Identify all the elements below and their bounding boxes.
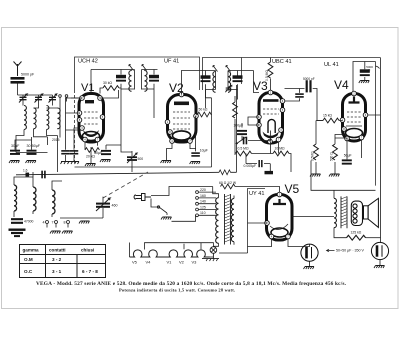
ground osc fat bbox=[9, 229, 26, 238]
input coil wiring bbox=[16, 98, 67, 173]
padder capacitor 500 bbox=[127, 153, 143, 163]
pin numbers V4 bbox=[342, 92, 367, 141]
wire bus to pot line bbox=[231, 85, 237, 172]
wire to UY bbox=[235, 187, 280, 193]
ground switch2 bbox=[62, 231, 73, 234]
svg-text:30µF: 30µF bbox=[11, 144, 20, 148]
svg-text:3 - 2: 3 - 2 bbox=[52, 257, 62, 262]
capacitor 100uF left of V3 bbox=[234, 124, 248, 136]
svg-text:30·50µF: 30·50µF bbox=[27, 144, 41, 148]
svg-text:110: 110 bbox=[200, 211, 206, 215]
IF1 top wires bbox=[71, 70, 158, 109]
svg-text:V4: V4 bbox=[146, 260, 152, 265]
junction blob bbox=[265, 171, 274, 174]
speaker bbox=[364, 198, 379, 227]
svg-text:125 kΩ: 125 kΩ bbox=[351, 231, 362, 235]
svg-text:contatti: contatti bbox=[49, 248, 66, 253]
svg-text:500: 500 bbox=[138, 157, 144, 161]
svg-text:UY 41: UY 41 bbox=[249, 191, 264, 197]
svg-text:0.005µF: 0.005µF bbox=[244, 164, 257, 168]
electrolytic capacitor 50uF b bbox=[371, 242, 388, 265]
svg-text:15 kΩ: 15 kΩ bbox=[323, 114, 332, 118]
ground ecap b bbox=[374, 266, 385, 269]
svg-text:140: 140 bbox=[200, 200, 206, 204]
svg-text:220: 220 bbox=[200, 188, 206, 192]
ground g3 wide bbox=[61, 162, 80, 165]
oscillator coil Lb bbox=[33, 187, 36, 211]
svg-text:pF: pF bbox=[367, 68, 371, 72]
power transformer core bbox=[225, 194, 231, 245]
svg-text:4: 4 bbox=[43, 221, 45, 225]
capacitor 0.005uF below V3 bbox=[244, 160, 263, 168]
filament labels bbox=[132, 260, 197, 265]
tube V4 pins bbox=[340, 91, 368, 141]
wire gang bbox=[60, 197, 103, 218]
wire res to V1 bbox=[100, 88, 121, 94]
ground gang bbox=[79, 221, 90, 224]
resistor 50k right of V2 bbox=[198, 108, 212, 117]
capacitor grid V1 b bbox=[70, 150, 79, 154]
resistor 500ohm below V4 bbox=[330, 144, 338, 161]
coil L4 band2 secondary bbox=[58, 108, 61, 129]
svg-text:3 - 1: 3 - 1 bbox=[52, 269, 62, 274]
ground switch bbox=[50, 231, 61, 234]
pin numbers V5 bbox=[266, 193, 289, 239]
label UBC 41 bbox=[272, 59, 292, 65]
wire V2 to 50k bbox=[196, 90, 212, 115]
svg-text:0.5 MΩ: 0.5 MΩ bbox=[265, 70, 269, 81]
svg-text:VEGA - Modd. 527 serie ANIE e: VEGA - Modd. 527 serie ANIE e 528. Onde … bbox=[36, 281, 347, 287]
shield box UBC41/UL41 bbox=[203, 58, 381, 186]
svg-text:0.5 MΩ: 0.5 MΩ bbox=[238, 147, 249, 151]
wires below V3 bbox=[246, 131, 291, 173]
oscillator coil La bbox=[14, 185, 17, 211]
output transformer wiring bbox=[292, 58, 381, 243]
ground g2 bbox=[26, 161, 37, 164]
UY41 box bbox=[248, 189, 266, 253]
oscillator coil Lc bbox=[52, 190, 55, 214]
svg-text:8: 8 bbox=[64, 221, 66, 225]
capacitor 47000 osc bbox=[11, 218, 34, 224]
ground lamp bbox=[206, 259, 218, 262]
trimmer T1 bbox=[19, 94, 27, 103]
tone capacitor 5000pF top right bbox=[360, 65, 374, 76]
capacitor IF1a bbox=[116, 75, 126, 82]
label V5 bbox=[285, 182, 300, 196]
coupling cap label bbox=[303, 77, 315, 81]
wire antenna down bbox=[17, 84, 19, 96]
capacitor IF1b bbox=[149, 75, 159, 82]
svg-text:V5: V5 bbox=[285, 182, 300, 196]
svg-text:30 kΩ: 30 kΩ bbox=[103, 81, 112, 85]
tube V3 bbox=[259, 93, 283, 144]
ground mains bbox=[161, 217, 172, 220]
coil IF2b bbox=[228, 72, 231, 93]
svg-text:5000 pF: 5000 pF bbox=[303, 77, 315, 81]
caption line 2 bbox=[119, 287, 235, 292]
small comp on bus bbox=[23, 169, 29, 177]
svg-text:10µF: 10µF bbox=[200, 149, 209, 153]
svg-text:125: 125 bbox=[200, 205, 206, 209]
coil IF2a bbox=[213, 72, 216, 93]
svg-text:V5: V5 bbox=[132, 260, 138, 265]
gang dashed line bbox=[103, 172, 148, 198]
power transformer secondary bbox=[231, 199, 234, 242]
resistor on bus bbox=[219, 170, 231, 175]
coupling capacitor 5000pF V3-V4 bbox=[306, 80, 312, 92]
wires left of V1 bbox=[15, 98, 80, 162]
IF1 tuning arrows bbox=[129, 65, 147, 71]
wire res V3 top bbox=[270, 58, 272, 91]
wire V1 cathode down bbox=[85, 142, 98, 163]
svg-text:0.5MΩ: 0.5MΩ bbox=[311, 151, 315, 161]
label UL 41 bbox=[324, 62, 339, 68]
label V4 bbox=[334, 78, 349, 92]
svg-text:50+50 µF · 350 V: 50+50 µF · 350 V bbox=[336, 249, 365, 253]
node dot A bbox=[59, 95, 68, 98]
main HT bus bbox=[16, 172, 219, 175]
pin numbers V1 bbox=[79, 96, 104, 142]
capacitor 30uF bbox=[10, 144, 20, 155]
svg-text:UBC 41: UBC 41 bbox=[272, 59, 292, 65]
svg-text:5000 pF: 5000 pF bbox=[21, 73, 35, 77]
capacitor grid V1 a bbox=[61, 150, 70, 154]
caption line 1 bbox=[36, 281, 347, 287]
series capacitor on bus bbox=[41, 171, 45, 179]
tuning gang capacitor 460 bbox=[96, 198, 118, 211]
svg-text:V4: V4 bbox=[334, 78, 349, 92]
resistor 10M below V3 bbox=[273, 147, 289, 156]
svg-text:O.M: O.M bbox=[24, 257, 33, 262]
svg-text:V1: V1 bbox=[81, 82, 94, 94]
tube V1 bbox=[79, 94, 104, 143]
pin numbers V3 bbox=[258, 91, 284, 144]
capacitor 50uF below V4 bbox=[342, 154, 352, 165]
wire V3 right pins bbox=[285, 89, 300, 102]
svg-text:50µF: 50µF bbox=[94, 151, 103, 155]
tube V4 bbox=[343, 94, 366, 142]
wires below V4 bbox=[316, 115, 381, 174]
resistor 60ohm label bbox=[219, 181, 237, 185]
capacitor 30-50uF bbox=[27, 144, 41, 155]
svg-text:20 kΩ: 20 kΩ bbox=[86, 155, 95, 159]
ground below V4b bbox=[329, 174, 340, 177]
svg-text:50 kΩ: 50 kΩ bbox=[199, 108, 208, 112]
ground V2 cathode bbox=[161, 161, 172, 164]
wire pot bbox=[235, 96, 259, 155]
svg-text:gamma: gamma bbox=[23, 248, 40, 253]
label UCH 42 bbox=[78, 59, 98, 65]
resistor 125k bbox=[347, 231, 366, 240]
selector labels bbox=[200, 188, 206, 215]
svg-text:6 - 7 - 8: 6 - 7 - 8 bbox=[82, 269, 98, 274]
IF2 tank wires bbox=[182, 71, 260, 109]
label 50+50uF bbox=[327, 249, 365, 253]
transformer wiring bbox=[213, 187, 234, 247]
ground below V2 cap bbox=[190, 162, 201, 165]
volume pot resistor bbox=[233, 102, 238, 118]
wire trimmer tops bbox=[18, 95, 53, 97]
resistor 30k to V1 bbox=[103, 81, 119, 90]
coil L2 aerial secondary bbox=[34, 108, 37, 129]
mains plug bbox=[134, 194, 151, 201]
wire V2 cathode bbox=[167, 116, 196, 161]
svg-text:50µF: 50µF bbox=[344, 154, 352, 158]
svg-text:V2: V2 bbox=[179, 260, 185, 265]
capacitor 10uF below V2 bbox=[191, 149, 208, 157]
svg-text:1,6: 1,6 bbox=[23, 169, 28, 173]
ground below V4a bbox=[310, 174, 321, 177]
capacitor C-ant 5000pF bbox=[11, 73, 35, 84]
coil L3 band2 primary bbox=[47, 106, 49, 130]
volume pot arrow bbox=[236, 137, 246, 144]
ground 50uF bbox=[100, 160, 111, 163]
coil L1 aerial primary bbox=[24, 106, 26, 130]
tube V1 pins bbox=[77, 96, 105, 142]
svg-text:47000: 47000 bbox=[24, 220, 34, 224]
osc wiring bbox=[14, 172, 62, 217]
label UY 41 bbox=[249, 191, 264, 197]
svg-text:V3: V3 bbox=[192, 260, 198, 265]
trimmer T3 bbox=[49, 94, 57, 103]
power transformer primary bbox=[216, 198, 219, 244]
svg-text:UF 41: UF 41 bbox=[164, 59, 179, 65]
mains switch bbox=[151, 199, 167, 216]
capacitor 50uF mid bbox=[94, 150, 111, 155]
wire 125k bbox=[366, 237, 381, 239]
capacitor IF2a bbox=[201, 75, 211, 82]
antenna bbox=[14, 62, 22, 77]
ground below V1 bbox=[85, 164, 96, 167]
ground g1 bbox=[9, 161, 20, 164]
table text bbox=[23, 248, 99, 275]
resistor 20k below V1 bbox=[85, 148, 99, 159]
svg-text:10 MΩ: 10 MΩ bbox=[275, 147, 286, 151]
svg-text:V1: V1 bbox=[167, 260, 173, 265]
svg-text:160: 160 bbox=[200, 194, 206, 198]
label V3 bbox=[253, 79, 268, 93]
resistor 0.5M above V3 bbox=[265, 62, 273, 81]
capacitor IF2b bbox=[233, 75, 243, 82]
electrolytic capacitor 50uF a bbox=[301, 244, 318, 266]
wire padder bbox=[121, 108, 154, 172]
output transformer primary bbox=[334, 198, 336, 227]
tube V2 pins bbox=[165, 92, 198, 143]
svg-text:chiusi: chiusi bbox=[81, 248, 94, 253]
resistor 0.5M below V3 bbox=[236, 147, 252, 156]
label UF 41 bbox=[164, 59, 179, 65]
tube V5 pins bbox=[265, 192, 291, 239]
wire V3 plate to cap bbox=[285, 89, 324, 121]
resistor 0.5M below V4 bbox=[311, 144, 319, 161]
output transformer core bbox=[341, 196, 347, 228]
svg-text:2015: 2015 bbox=[52, 138, 60, 142]
output transformer secondary bobbin bbox=[351, 201, 362, 225]
resistor 15k left of V4 bbox=[323, 114, 339, 123]
IF2 arrows bbox=[213, 66, 231, 72]
wire 15k bbox=[316, 120, 343, 122]
filament chain bbox=[130, 243, 214, 258]
tone cap wires bbox=[353, 62, 380, 92]
dial lamp bbox=[202, 247, 219, 259]
svg-text:O.C: O.C bbox=[24, 269, 33, 274]
svg-text:UCH 42: UCH 42 bbox=[78, 59, 98, 65]
svg-text:Potenza indistorta di uscita 1: Potenza indistorta di uscita 1,5 watt. C… bbox=[119, 287, 235, 292]
ground ecap a bbox=[304, 267, 315, 270]
shield box UCH42/UF41 bbox=[75, 57, 200, 163]
V5 wiring bbox=[219, 223, 310, 253]
svg-text:500 Ω: 500 Ω bbox=[330, 152, 334, 161]
tube V2 bbox=[168, 95, 197, 143]
label V1 bbox=[81, 82, 94, 94]
resistor 60ohm bbox=[221, 184, 236, 189]
label 2015 bbox=[52, 138, 60, 142]
box bottom line bbox=[75, 98, 212, 167]
svg-text:460: 460 bbox=[112, 204, 118, 208]
band switch labels bbox=[43, 221, 66, 225]
tube V3 pins bbox=[257, 90, 285, 144]
voltage selector contacts bbox=[151, 187, 216, 222]
coil IF1a bbox=[129, 71, 132, 92]
trimmer T2 bbox=[35, 94, 43, 103]
svg-text:UL 41: UL 41 bbox=[324, 62, 339, 68]
pin numbers V2 bbox=[167, 93, 198, 144]
capacitor 100pF V3 plate bbox=[295, 93, 304, 97]
svg-text:7: 7 bbox=[52, 221, 54, 225]
coil IF1b bbox=[145, 71, 148, 92]
label V2 bbox=[169, 81, 184, 95]
band switch contacts bbox=[46, 221, 70, 228]
wire 50uF bbox=[106, 145, 121, 150]
ground tone cap bbox=[359, 81, 370, 84]
contact table bbox=[20, 245, 106, 278]
trimmer near IF2 bbox=[225, 85, 232, 92]
coupling capacitor below V3 bbox=[243, 137, 247, 145]
tube V5 bbox=[267, 195, 293, 241]
